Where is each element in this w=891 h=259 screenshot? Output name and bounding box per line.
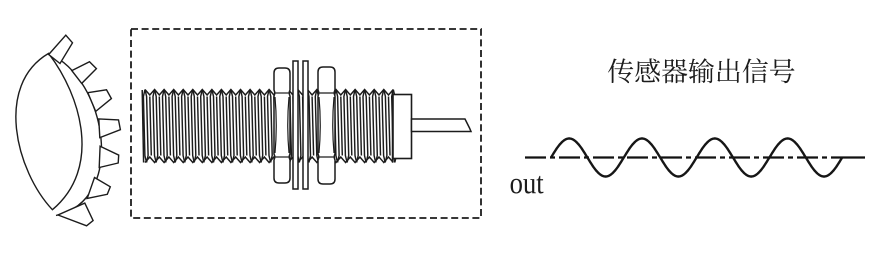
sensor output sine wave	[551, 139, 842, 177]
hex nut (right)	[318, 67, 335, 184]
gear rim outer edge (tooth base arc)	[49, 53, 102, 215]
gear wheel disk (lens outline)	[16, 53, 82, 209]
threaded sensor body	[143, 90, 396, 163]
dashed enclosure box	[131, 29, 481, 218]
gear tooth 6	[87, 178, 110, 199]
gear tooth 4	[99, 119, 121, 138]
mounting plate washer (right)	[303, 61, 308, 189]
gear tooth 3	[88, 90, 112, 112]
gear tooth 5	[99, 146, 119, 167]
hex nut (left)	[274, 68, 290, 183]
mounting plate washer (left)	[293, 61, 298, 189]
connector housing	[393, 95, 412, 159]
thread right end face	[392, 90, 394, 163]
signal center line (dash-dot)	[525, 156, 844, 158]
signal center line solid end segment	[844, 156, 865, 158]
gear tooth 1	[49, 35, 73, 63]
gear tooth 7	[58, 203, 93, 226]
label "传感器输出信号" sensor output signal	[608, 58, 633, 83]
gear tooth 2	[72, 62, 97, 84]
label "out"	[511, 179, 522, 194]
cable lead	[412, 119, 472, 132]
thread left end face	[142, 90, 143, 163]
